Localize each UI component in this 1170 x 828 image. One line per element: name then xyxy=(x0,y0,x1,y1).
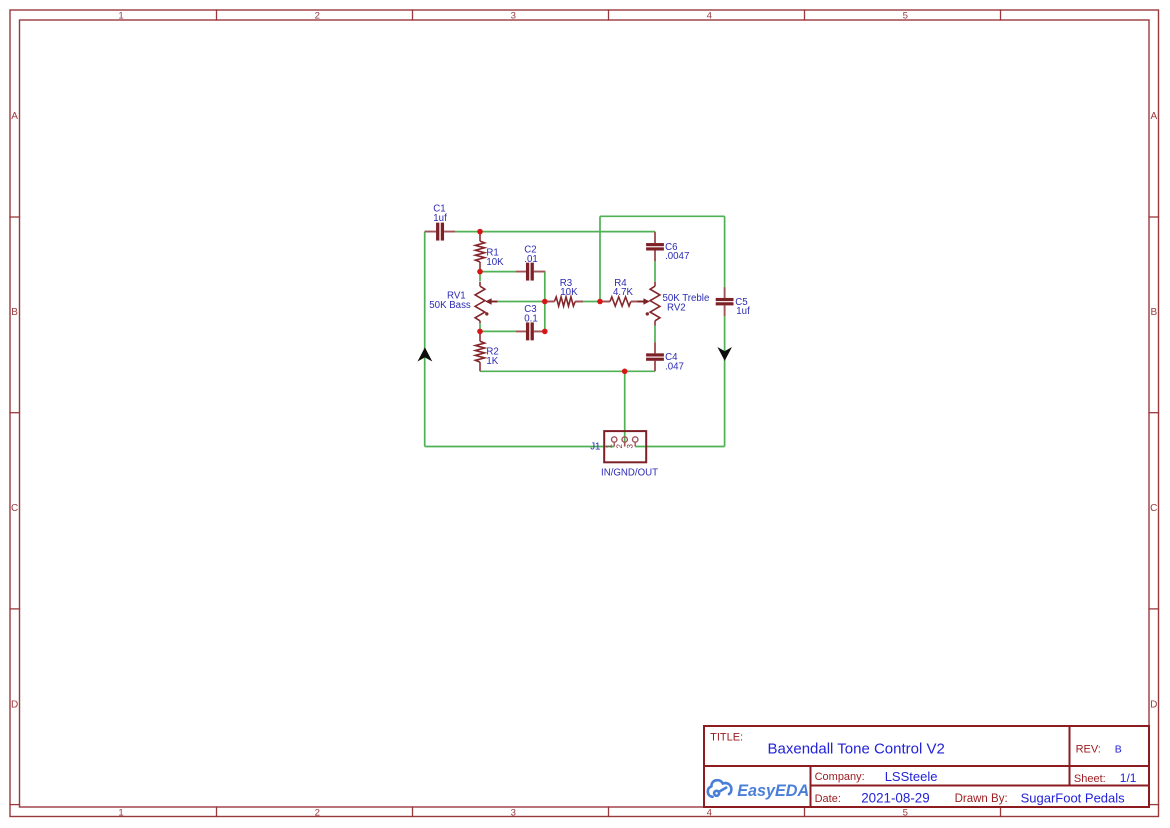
wire R1 junction down to RV1 xyxy=(479,272,481,282)
connector J1 box xyxy=(604,431,646,462)
junction R1/C2/RV1 xyxy=(477,269,483,275)
capacitor C1 plates xyxy=(436,223,444,241)
potentiometer RV1 pins xyxy=(479,282,481,324)
wire mid vertical link xyxy=(599,216,601,301)
wire bottom junction to J1 xyxy=(624,371,626,446)
svg-text:3: 3 xyxy=(511,11,516,22)
frame column tick top xyxy=(804,10,806,20)
capacitor C5 plates xyxy=(716,298,734,305)
title block vertical divider logo/company xyxy=(810,766,812,807)
frame row tick right xyxy=(1149,216,1159,218)
resistor R4 body xyxy=(610,297,631,306)
wire top main horizontal xyxy=(425,231,655,233)
input flow arrow (up) on left rail xyxy=(418,347,433,361)
svg-text:B: B xyxy=(11,307,18,318)
frame row tick right xyxy=(1149,608,1159,610)
junction wiper/C2 column xyxy=(542,299,548,305)
resistor R3 pins xyxy=(545,301,583,303)
junction bottom net/J1 xyxy=(622,369,628,375)
potentiometer RV2 pins xyxy=(654,282,656,326)
frame column tick top xyxy=(412,10,414,20)
svg-text:A: A xyxy=(1150,111,1157,122)
frame column tick bottom xyxy=(804,807,806,817)
svg-text:LSSteele: LSSteele xyxy=(885,769,938,784)
wire C6 to RV2 xyxy=(654,261,656,281)
svg-text:SugarFoot Pedals: SugarFoot Pedals xyxy=(1021,791,1126,806)
frame column tick bottom xyxy=(1000,807,1002,817)
frame row tick left xyxy=(10,804,20,806)
svg-text:D: D xyxy=(11,699,18,710)
svg-text:4: 4 xyxy=(707,11,713,22)
resistor R3 body xyxy=(554,297,575,306)
resistor R2 body xyxy=(475,341,484,362)
svg-text:B: B xyxy=(1115,744,1122,756)
svg-text:Drawn By:: Drawn By: xyxy=(955,793,1008,805)
wire RV1 bottom to junction xyxy=(479,323,481,331)
potentiometer RV2 body xyxy=(650,286,660,321)
svg-text:1/1: 1/1 xyxy=(1120,771,1137,785)
svg-text:REV:: REV: xyxy=(1076,744,1101,756)
svg-text:.0047: .0047 xyxy=(665,251,689,262)
wire left rail vertical xyxy=(424,232,426,447)
svg-text:1uf: 1uf xyxy=(736,306,750,317)
wire R1 bottom to C2 xyxy=(480,271,516,273)
potentiometer RV1 wiper arrow xyxy=(491,301,497,303)
svg-text:.047: .047 xyxy=(665,362,684,373)
wire bottom right horizontal xyxy=(635,446,724,448)
capacitor C4 pins xyxy=(654,342,656,371)
svg-text:2: 2 xyxy=(615,443,624,448)
potentiometer RV1 body xyxy=(475,286,485,321)
frame column tick top xyxy=(1000,10,1002,20)
resistor R1 pins xyxy=(479,232,481,272)
title block outline xyxy=(704,726,1149,807)
svg-text:5: 5 xyxy=(903,11,908,22)
wire right rail lower vertical xyxy=(724,316,726,446)
capacitor C6 plates xyxy=(646,243,664,250)
capacitor C2 pins xyxy=(516,271,545,273)
wire R3 right to junction xyxy=(583,301,600,303)
frame column tick bottom xyxy=(412,807,414,817)
svg-text:A: A xyxy=(11,111,18,122)
capacitor C6 pins xyxy=(654,232,656,262)
svg-text:10K: 10K xyxy=(486,257,504,268)
junction C3/column xyxy=(542,329,548,335)
svg-text:TITLE:: TITLE: xyxy=(710,731,743,743)
svg-text:50K Bass: 50K Bass xyxy=(429,300,471,311)
resistor R4 pins xyxy=(603,301,639,303)
potentiometer RV2 wiper arrow xyxy=(638,301,644,303)
capacitor C4 plates xyxy=(646,353,664,360)
svg-text:.01: .01 xyxy=(524,254,537,265)
title block row divider under title xyxy=(704,765,1149,767)
frame column tick top xyxy=(216,10,218,20)
svg-text:Date:: Date: xyxy=(815,793,841,805)
wire C2 corner down xyxy=(534,272,545,302)
junction C1/R1 top net xyxy=(477,229,483,235)
svg-text:C: C xyxy=(1150,503,1157,514)
svg-text:D: D xyxy=(1150,699,1157,710)
svg-text:3: 3 xyxy=(511,808,516,819)
svg-text:Sheet:: Sheet: xyxy=(1074,773,1106,785)
connector J1 pin stubs xyxy=(614,442,635,446)
wire junction to R4 xyxy=(600,301,603,303)
resistor R1 body xyxy=(475,241,484,262)
title block vertical divider rev/sheet xyxy=(1069,726,1071,786)
svg-text:1uf: 1uf xyxy=(433,213,447,224)
svg-text:IN/GND/OUT: IN/GND/OUT xyxy=(601,468,658,479)
wire right rail upper vertical xyxy=(724,216,726,287)
wire RV1 wiper to junction xyxy=(497,301,545,303)
svg-text:Baxendall Tone Control V2: Baxendall Tone Control V2 xyxy=(768,740,945,757)
svg-text:2021-08-29: 2021-08-29 xyxy=(861,791,930,806)
svg-text:0.1: 0.1 xyxy=(524,314,537,325)
output flow arrow (down) on right rail xyxy=(717,347,732,361)
title block row divider company/date xyxy=(811,785,1150,787)
capacitor C3 pins xyxy=(516,330,545,332)
wire RV2 bottom to C4 xyxy=(654,326,656,343)
svg-text:RV2: RV2 xyxy=(667,302,686,313)
resistor R2 pins xyxy=(479,331,481,371)
capacitor C2 plates xyxy=(526,263,534,281)
svg-text:EasyEDA: EasyEDA xyxy=(737,782,809,800)
svg-text:4: 4 xyxy=(707,808,713,819)
svg-text:3: 3 xyxy=(625,443,634,448)
junction RV1/C3/R2 xyxy=(477,329,483,335)
frame column tick top xyxy=(608,10,610,20)
svg-text:2: 2 xyxy=(315,808,320,819)
frame row tick right xyxy=(1149,804,1159,806)
frame row tick right xyxy=(1149,412,1159,414)
wire junction column C2C3 vertical xyxy=(544,302,546,332)
svg-text:4.7K: 4.7K xyxy=(613,287,633,298)
svg-text:2: 2 xyxy=(315,11,320,22)
svg-text:1: 1 xyxy=(604,443,613,448)
svg-text:J1: J1 xyxy=(590,442,600,453)
svg-text:5: 5 xyxy=(903,808,908,819)
wire bottom net horizontal xyxy=(480,370,655,372)
svg-text:C: C xyxy=(11,503,18,514)
frame column tick bottom xyxy=(216,807,218,817)
capacitor C5 pins xyxy=(724,287,726,316)
capacitor C3 plates xyxy=(526,322,534,340)
svg-text:1: 1 xyxy=(118,808,123,819)
potentiometer RV2 pin1 indicator dot xyxy=(646,312,649,315)
svg-text:10K: 10K xyxy=(560,287,578,298)
frame row tick left xyxy=(10,608,20,610)
wire C3 left xyxy=(480,330,516,332)
svg-text:1K: 1K xyxy=(486,356,498,367)
EasyEDA logo cloud icon xyxy=(708,780,732,797)
svg-text:Company:: Company: xyxy=(815,771,865,783)
capacitor C1 pins xyxy=(425,231,455,233)
potentiometer RV1 pin1 indicator dot xyxy=(485,312,488,315)
frame row tick left xyxy=(10,412,20,414)
connector J1 pin circles xyxy=(612,437,638,442)
frame row tick left xyxy=(10,216,20,218)
wire upper link horizontal xyxy=(600,215,725,217)
junction R3/R4/top link xyxy=(597,299,603,305)
svg-text:B: B xyxy=(1150,307,1157,318)
frame column tick bottom xyxy=(608,807,610,817)
svg-text:1: 1 xyxy=(118,11,123,22)
wire bottom left horizontal xyxy=(425,446,615,448)
